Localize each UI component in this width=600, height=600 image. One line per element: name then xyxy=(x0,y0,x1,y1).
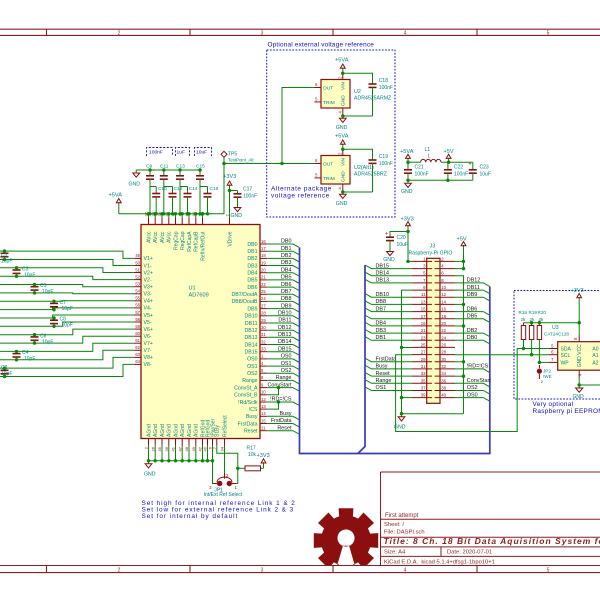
wire pin feed xyxy=(154,214,156,218)
wire net DB5 (J3 right) xyxy=(455,319,490,323)
svg-text:!CS: !CS xyxy=(249,407,258,413)
svg-text:Range: Range xyxy=(376,378,392,384)
svg-text:V8+: V8+ xyxy=(144,355,153,361)
svg-text:34: 34 xyxy=(441,371,446,376)
U1 pin 40 AVcc xyxy=(168,217,170,224)
junction xyxy=(538,321,541,324)
wire net Busy (U1) xyxy=(267,416,299,420)
svg-text:AGnd: AGnd xyxy=(167,424,173,437)
svg-text:C18: C18 xyxy=(379,78,388,84)
svg-text:20: 20 xyxy=(441,321,446,326)
svg-text:Range: Range xyxy=(276,375,292,381)
svg-text:V1-: V1- xyxy=(144,263,152,269)
U1 pin 1 RefIn/RefOut xyxy=(202,217,204,224)
J3 pin 27 xyxy=(412,354,432,356)
wire channel input V2+ xyxy=(0,268,134,273)
svg-text:2: 2 xyxy=(338,76,343,79)
svg-text:GND: GND xyxy=(144,472,156,478)
svg-text:Set for internal by default: Set for internal by default xyxy=(142,513,239,520)
svg-text:10pF: 10pF xyxy=(62,306,73,312)
wire net OS0 (U1) xyxy=(267,359,299,363)
J3 pin 24 xyxy=(435,339,455,341)
svg-text:DB5: DB5 xyxy=(247,278,257,284)
svg-text:DB1: DB1 xyxy=(376,335,387,341)
svg-text:DB3: DB3 xyxy=(376,328,387,334)
jumper JP2 !WE xyxy=(538,365,540,368)
junction xyxy=(406,260,409,263)
capacitor C7 10pF xyxy=(53,301,55,303)
svg-text:OS0: OS0 xyxy=(247,357,257,363)
svg-text:37: 37 xyxy=(421,386,426,391)
svg-text:DB12: DB12 xyxy=(278,325,292,331)
svg-text:U1: U1 xyxy=(189,286,196,292)
svg-text:KiCad E.D.A. kicad 5.1.4+dfsg: KiCad E.D.A. kicad 5.1.4+dfsg1-1bpo10+1 xyxy=(384,559,495,565)
svg-text:L: L xyxy=(428,154,431,160)
svg-text:13: 13 xyxy=(261,404,266,409)
svg-text:DB0: DB0 xyxy=(467,335,478,341)
power +5VA (filter) xyxy=(407,158,409,163)
svg-text:4: 4 xyxy=(441,264,444,269)
U1 pin 41 RegCap xyxy=(175,217,177,224)
svg-text:AGnd: AGnd xyxy=(160,424,166,437)
svg-text:DB8: DB8 xyxy=(376,299,387,305)
wire U2 OUT xyxy=(282,88,314,164)
wire net DB4 (U1) xyxy=(267,273,299,277)
svg-text:10: 10 xyxy=(261,390,266,395)
capacitor C6 10pF xyxy=(34,335,36,337)
wire net OS2 (U1) xyxy=(267,373,299,377)
U1 pin 49 AGnd xyxy=(195,439,197,446)
svg-text:FrstData: FrstData xyxy=(376,357,397,363)
svg-text:DB3: DB3 xyxy=(281,260,292,266)
J3 pin 19 xyxy=(412,325,432,327)
svg-text:27: 27 xyxy=(261,303,266,308)
svg-text:DB2: DB2 xyxy=(281,253,292,259)
wire U2 alt OUT to TP5 xyxy=(224,163,314,165)
svg-text:R19: R19 xyxy=(529,310,538,315)
U1 pin 8 Range xyxy=(260,379,267,381)
junction xyxy=(446,179,449,182)
svg-text:9: 9 xyxy=(423,285,426,290)
svg-text:AGnd: AGnd xyxy=(180,424,186,437)
junction xyxy=(160,459,163,462)
wire gnd pin to rail xyxy=(455,303,464,305)
svg-text:27: 27 xyxy=(421,350,426,355)
svg-text:10uF: 10uF xyxy=(480,172,491,178)
svg-text:RefSelect: RefSelect xyxy=(222,415,228,437)
svg-text:17: 17 xyxy=(421,314,426,319)
wire net DB11 (U1) xyxy=(267,323,299,327)
svg-text:5: 5 xyxy=(547,30,550,36)
power +5VA (U2) xyxy=(342,68,344,74)
J3 pin 34 xyxy=(435,375,455,377)
ground (C17) xyxy=(237,205,239,208)
svg-text:V7+: V7+ xyxy=(144,341,153,347)
svg-text:DB4: DB4 xyxy=(376,321,387,327)
svg-text:FrstData: FrstData xyxy=(271,418,292,424)
U1 pin 60 V6- xyxy=(134,335,141,337)
svg-text:52: 52 xyxy=(135,274,140,279)
wire to C19 xyxy=(343,149,373,156)
U3 pin 7 WP xyxy=(548,361,557,363)
wire net DB0 (U1) xyxy=(267,244,299,248)
junction xyxy=(228,189,231,192)
ground (U1 AGnd) xyxy=(148,461,150,464)
svg-text:Busy: Busy xyxy=(376,364,388,370)
svg-text:24: 24 xyxy=(261,296,266,301)
junction xyxy=(160,212,163,215)
wire pin drop xyxy=(148,446,150,461)
J3 pin 40 xyxy=(435,397,455,399)
svg-text:22: 22 xyxy=(441,328,446,333)
note bracket 100nF xyxy=(147,148,173,157)
svg-text:2: 2 xyxy=(541,379,544,384)
svg-text:+3V3: +3V3 xyxy=(401,217,414,223)
svg-text:Very optional: Very optional xyxy=(533,401,574,408)
wire channel input V4+ xyxy=(0,300,134,303)
svg-text:C23: C23 xyxy=(480,164,489,170)
U1 pin 59 V6+ xyxy=(134,328,141,330)
svg-text:5: 5 xyxy=(261,368,264,373)
wire pin drop xyxy=(181,446,183,461)
wire pin feed xyxy=(181,214,183,218)
wire net ConvStart (U1) xyxy=(267,388,299,392)
svg-text:2: 2 xyxy=(441,256,444,261)
svg-text:S1By: S1By xyxy=(215,425,221,437)
wire pin39 to rail xyxy=(402,397,413,399)
svg-text:4: 4 xyxy=(261,361,264,366)
svg-text:10: 10 xyxy=(441,285,446,290)
svg-text:+5VA: +5VA xyxy=(335,134,349,140)
capacitor C22 100nF xyxy=(447,162,449,170)
svg-text:+5V: +5V xyxy=(457,237,467,243)
svg-text:First attempt: First attempt xyxy=(385,513,419,519)
wire net DB4 (J3) xyxy=(365,322,412,326)
jumper JP1 xyxy=(214,483,218,485)
U1 pin 41 AGnd xyxy=(175,439,177,446)
svg-text:10pF: 10pF xyxy=(42,339,53,345)
J3 pin 8 xyxy=(435,282,455,284)
U1 pin 37 AVcc xyxy=(148,217,150,224)
svg-text:6: 6 xyxy=(315,82,318,87)
U1 pin 19 DB3 xyxy=(260,265,267,267)
junction xyxy=(341,190,344,193)
wire net DB0 (J3 right) xyxy=(455,340,490,344)
wire filter ground rail xyxy=(408,179,473,181)
wire RefSelect to JP1 pin2 xyxy=(224,446,226,474)
wire channel input V6+ xyxy=(0,329,134,335)
junction xyxy=(462,303,465,306)
wire pin drop xyxy=(175,446,177,461)
capacitor C18 100nF xyxy=(372,81,374,85)
wire net DB7 (J3) xyxy=(365,308,412,312)
svg-text:16: 16 xyxy=(261,239,266,244)
svg-text:GND: GND xyxy=(401,189,413,195)
svg-text:7: 7 xyxy=(551,357,554,362)
power +5VA (decoupling rail) xyxy=(118,202,120,214)
svg-text:AGnd: AGnd xyxy=(146,424,152,437)
junction xyxy=(400,396,403,399)
wire net DB1 (U1) xyxy=(267,251,299,255)
svg-text:DB7/DoutA: DB7/DoutA xyxy=(232,292,258,298)
U1 pin 11 Reset xyxy=(260,430,267,432)
wire pin drop xyxy=(161,446,163,461)
svg-text:25: 25 xyxy=(421,342,426,347)
svg-text:OS1: OS1 xyxy=(281,361,292,367)
wire net DB8 (U1) xyxy=(267,301,299,305)
svg-text:1: 1 xyxy=(235,485,238,490)
svg-text:Busy: Busy xyxy=(280,411,292,417)
svg-text:TestPoint_Alt: TestPoint_Alt xyxy=(228,157,254,162)
svg-text:15: 15 xyxy=(421,307,426,312)
J3 pin 7 xyxy=(412,282,432,284)
svg-text:U2: U2 xyxy=(354,89,361,95)
capacitor C13 xyxy=(179,170,181,176)
U1 pin 52 V2- xyxy=(134,279,141,281)
svg-text:58: 58 xyxy=(135,317,140,322)
svg-text:6: 6 xyxy=(551,350,554,355)
svg-text:GND: GND xyxy=(341,95,347,106)
junction xyxy=(147,459,150,462)
svg-text:DB6: DB6 xyxy=(281,282,292,288)
svg-text:10pF: 10pF xyxy=(24,273,35,279)
U1 pin 43 RefCapA xyxy=(188,217,190,224)
J3 pin 3 xyxy=(412,268,432,270)
svg-text:22: 22 xyxy=(261,282,266,287)
svg-text:30: 30 xyxy=(441,357,446,362)
svg-text:23: 23 xyxy=(421,335,426,340)
svg-text:62: 62 xyxy=(135,345,140,350)
ground (filter) xyxy=(407,180,409,183)
svg-text:10uF: 10uF xyxy=(397,242,408,248)
svg-text:AVcc: AVcc xyxy=(167,231,173,243)
wire pin feed xyxy=(168,214,170,218)
junction xyxy=(174,212,177,215)
U1 pin 44 RefCapB xyxy=(195,217,197,224)
svg-text:R17: R17 xyxy=(247,446,256,452)
svg-text:DB13: DB13 xyxy=(245,335,258,341)
J3 pin 16 xyxy=(435,311,455,313)
svg-text:32: 32 xyxy=(441,364,446,369)
svg-text:+5VA: +5VA xyxy=(109,193,123,199)
U1 pin 47 AGnd xyxy=(181,439,183,446)
svg-text:A0: A0 xyxy=(592,347,598,353)
wire pin feed xyxy=(161,214,163,218)
wire ID_SC pin28 to EEPROM SCL xyxy=(455,354,548,356)
svg-text:26: 26 xyxy=(441,342,446,347)
svg-text:Reset: Reset xyxy=(376,371,391,377)
svg-text:GND: GND xyxy=(577,356,583,368)
svg-text:V2+: V2+ xyxy=(144,270,153,276)
wire net Reset (U1) xyxy=(267,431,299,435)
svg-text:AGnd: AGnd xyxy=(173,424,179,437)
svg-text:Int/Ext Ref Select: Int/Ext Ref Select xyxy=(204,492,243,498)
U3 pin 6 SCL xyxy=(548,354,557,356)
wire net DB11 (J3 right) xyxy=(455,290,490,294)
U1 pin 13 !CS xyxy=(260,408,267,410)
junction xyxy=(280,162,283,165)
svg-text:26: 26 xyxy=(150,446,155,451)
svg-text:16: 16 xyxy=(441,307,446,312)
svg-text:Raspberry pi EEPROM: Raspberry pi EEPROM xyxy=(533,408,600,415)
svg-text:V6+: V6+ xyxy=(144,327,153,333)
J3 pin 25 xyxy=(412,346,432,348)
svg-text:ConvSt_B: ConvSt_B xyxy=(234,393,258,399)
svg-text:OS2: OS2 xyxy=(467,385,478,391)
svg-text:5: 5 xyxy=(547,568,550,574)
svg-text:+5VA: +5VA xyxy=(335,58,349,64)
svg-text:OS2: OS2 xyxy=(247,371,257,377)
svg-text:13: 13 xyxy=(421,299,426,304)
svg-text:L1: L1 xyxy=(425,147,431,153)
ground (C20) xyxy=(389,249,391,252)
ground (J3) xyxy=(401,414,403,417)
U1 pin 20 DB4 xyxy=(260,272,267,274)
U1 pin 51 V2+ xyxy=(134,272,141,274)
wire channel input V6- xyxy=(0,336,134,343)
J3 pin 21 xyxy=(412,332,432,334)
svg-text:Sheet: /: Sheet: / xyxy=(384,522,404,528)
J3 pin 39 xyxy=(412,397,432,399)
J3 pin 26 xyxy=(435,346,455,348)
junction xyxy=(462,260,465,263)
svg-text:C9: C9 xyxy=(146,164,152,170)
svg-text:SCL: SCL xyxy=(561,353,571,359)
svg-text:51: 51 xyxy=(135,267,140,272)
U1 pin 2 VDrive xyxy=(229,217,231,224)
wire net DB9 (U1) xyxy=(267,309,299,313)
wire net Range (J3) xyxy=(365,380,412,384)
svg-text:GND: GND xyxy=(336,125,348,131)
svg-text:DB11: DB11 xyxy=(245,321,258,327)
svg-text:1: 1 xyxy=(423,256,426,261)
svg-text:OS0: OS0 xyxy=(467,392,478,398)
svg-text:AD7609: AD7609 xyxy=(189,293,209,299)
svg-text:V3+: V3+ xyxy=(144,285,153,291)
svg-text:19: 19 xyxy=(421,321,426,326)
svg-text:DB13: DB13 xyxy=(376,278,390,284)
junction xyxy=(194,459,197,462)
svg-text:32: 32 xyxy=(261,339,266,344)
wire net FrstData (U1) xyxy=(267,424,299,428)
wire net DB8 (J3) xyxy=(365,301,412,305)
U1 pin 46 RefGnd xyxy=(207,439,209,446)
svg-text:Busy: Busy xyxy=(246,414,258,420)
svg-text:2k: 2k xyxy=(521,317,527,322)
junction xyxy=(167,459,170,462)
svg-text:DB4: DB4 xyxy=(281,267,292,273)
svg-text:A2: A2 xyxy=(592,360,598,366)
svg-text:Raspberry-Pi GPIO: Raspberry-Pi GPIO xyxy=(409,251,453,257)
wire AGnd rail xyxy=(149,460,213,462)
svg-text:4: 4 xyxy=(338,187,343,190)
J3 pin 18 xyxy=(435,318,455,320)
svg-text:ConvStart: ConvStart xyxy=(467,378,491,384)
svg-text:3: 3 xyxy=(423,264,426,269)
svg-text:AGnd: AGnd xyxy=(153,424,159,437)
svg-text:DB15: DB15 xyxy=(245,350,258,356)
wire channel input V8- xyxy=(0,364,134,376)
svg-text:15: 15 xyxy=(261,418,266,423)
U1 pin 5 OS2 xyxy=(260,372,267,374)
junction xyxy=(201,212,204,215)
svg-text:4: 4 xyxy=(404,30,407,36)
svg-text:C19: C19 xyxy=(379,154,388,160)
wire ground rails join xyxy=(402,413,464,415)
inductor L1 xyxy=(408,161,421,163)
junction xyxy=(522,347,525,350)
wire VCC up xyxy=(578,323,580,335)
U1 pin 17 DB1 xyxy=(260,250,267,252)
junction xyxy=(194,212,197,215)
svg-text:J3: J3 xyxy=(430,244,436,250)
wire VDrive xyxy=(229,214,231,218)
wire pin feed xyxy=(188,214,190,218)
svg-text:C20: C20 xyxy=(397,235,406,241)
svg-text:DB6: DB6 xyxy=(467,306,478,312)
wire pin feed xyxy=(195,214,197,218)
junction xyxy=(154,459,157,462)
capacitor C5 10pF xyxy=(34,285,36,287)
svg-text:54: 54 xyxy=(135,289,140,294)
wire net Range (U1) xyxy=(267,380,299,384)
wire net OS1 (J3) xyxy=(365,387,412,391)
U1 pin 50 V1- xyxy=(134,265,141,267)
svg-text:WP: WP xyxy=(561,360,570,366)
svg-text:RegCap: RegCap xyxy=(180,231,186,250)
svg-text:VIN: VIN xyxy=(341,157,347,166)
svg-text:GND: GND xyxy=(383,257,395,263)
title block xyxy=(381,472,600,566)
svg-text:GND: GND xyxy=(231,213,243,219)
wire net DB14 (U1) xyxy=(267,345,299,349)
capacitor C19 100nF xyxy=(372,157,374,161)
J3 pin 1 xyxy=(412,260,432,262)
bus data (U1 side) xyxy=(300,248,490,454)
junction xyxy=(236,467,239,470)
U1 pin 26 AGnd xyxy=(154,439,156,446)
test point TP5 xyxy=(221,151,227,157)
svg-text:5: 5 xyxy=(315,97,318,102)
J3 pin 30 xyxy=(435,361,455,363)
svg-text:10pF: 10pF xyxy=(62,323,73,329)
svg-text:V7-: V7- xyxy=(144,348,152,354)
J3 pin 28 xyxy=(435,354,455,356)
junction xyxy=(578,383,581,386)
svg-text:2: 2 xyxy=(144,446,149,449)
svg-text:35: 35 xyxy=(157,446,162,451)
J3 pin 2 xyxy=(435,260,455,262)
svg-text:55: 55 xyxy=(135,296,140,301)
svg-text:2: 2 xyxy=(225,214,230,217)
U1 pin 48 AGnd xyxy=(188,439,190,446)
J3 pin 12 xyxy=(435,296,455,298)
svg-text:+: + xyxy=(469,162,472,168)
svg-text:C10: C10 xyxy=(158,186,167,192)
junction xyxy=(211,459,214,462)
memory U3 CAT24C128 body xyxy=(558,342,600,371)
U1 pin 24 DB8/DoutB xyxy=(260,300,267,302)
capacitor C12 xyxy=(164,186,173,188)
J3 pin 22 xyxy=(435,332,455,334)
J3 pin 20 xyxy=(435,325,455,327)
capacitor C20 10uF xyxy=(389,235,391,238)
svg-text:1uF: 1uF xyxy=(177,150,185,156)
svg-text:49: 49 xyxy=(191,446,196,451)
svg-text:+3V3: +3V3 xyxy=(571,288,584,294)
svg-text:!RD=!CS: !RD=!CS xyxy=(270,397,292,403)
svg-text:RegCap: RegCap xyxy=(173,231,179,250)
